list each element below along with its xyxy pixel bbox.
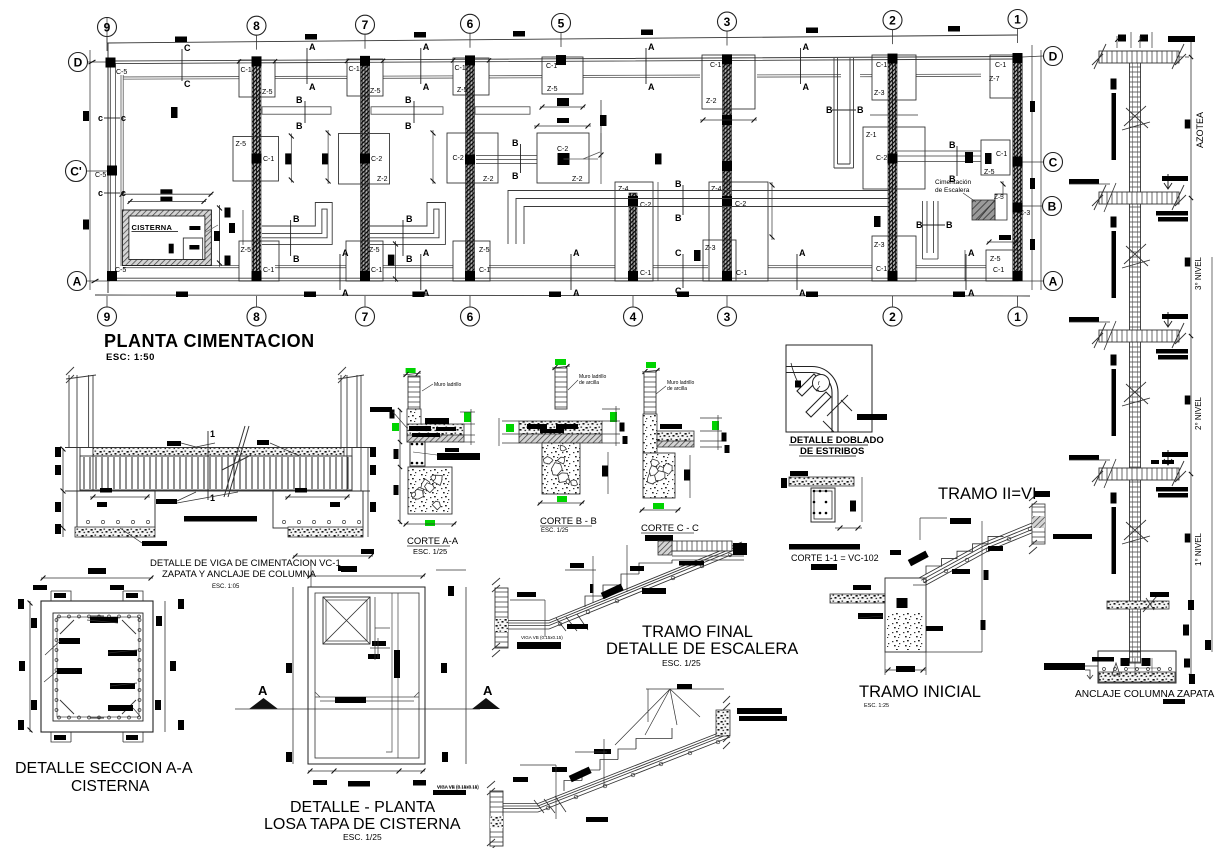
svg-text:A: A: [803, 42, 810, 52]
losa x-box: [323, 597, 370, 644]
svg-text:DETALLE - PLANTA: DETALLE - PLANTA: [290, 799, 436, 816]
tramo final bars: [517, 592, 536, 597]
left wall grid 9: [107, 43, 109, 293]
svg-text:Z-5: Z-5: [370, 88, 381, 95]
marker A pair top: [420, 48, 422, 84]
grid bubble 8 top: [247, 16, 266, 35]
svg-text:9: 9: [104, 310, 111, 324]
corte B-B left ticks: [502, 420, 519, 422]
marker C pair left wall upper: [104, 117, 120, 119]
corte A-A green right: [464, 412, 471, 422]
corte A-A leader to wall: [393, 412, 407, 428]
footing Z-1 grid 2 mid: [863, 127, 925, 189]
beam body with stirrup ticks: [80, 456, 352, 490]
tramo final landing hatch block: [658, 541, 672, 555]
svg-text:C-1: C-1: [263, 267, 274, 274]
tramo inicial top dim: [920, 517, 947, 519]
row bubble A right: [1044, 272, 1063, 291]
footing Z-3 grid 2 top: [872, 55, 916, 100]
svg-text:Z-2: Z-2: [706, 98, 717, 105]
marker B pair row B grid 2-1: [956, 146, 958, 176]
tramo final dims: [544, 600, 546, 637]
tramo final ramp: [549, 542, 742, 629]
svg-text:A: A: [309, 82, 316, 92]
svg-text:ZAPATA Y ANCLAJE DE COLUMNA: ZAPATA Y ANCLAJE DE COLUMNA: [162, 569, 316, 580]
dim vertical bay 7-6: [432, 130, 434, 184]
beam top speckled strip: [93, 448, 344, 457]
corte A-A footing: [408, 467, 452, 514]
svg-text:CORTE 1-1 = VC-102: CORTE 1-1 = VC-102: [791, 553, 879, 563]
dim vertical bay 4-3: [657, 182, 659, 281]
row bubble D right: [1044, 47, 1063, 66]
grid bubble 2 top: [883, 11, 902, 30]
corte B-B green bottom: [557, 496, 567, 502]
footing Z-7 grid 1 top: [990, 55, 1018, 98]
lower stair ramp: [538, 729, 730, 813]
corte C-C right ticks: [700, 417, 722, 419]
grid bubble 6 bottom: [461, 307, 480, 326]
dim marks around grid 2 top: [870, 114, 918, 116]
grid bubble 9 top: [98, 18, 117, 37]
left footing below beam: [77, 491, 155, 528]
svg-text:Z-5: Z-5: [994, 194, 1004, 201]
corte A-A bottom dim: [404, 523, 456, 525]
tramo inicial bar right of footing: [926, 626, 943, 631]
tramo inicial steps: [926, 536, 1004, 574]
VC-1 right dim: [367, 448, 369, 537]
cisterna sec outer rect: [41, 601, 153, 732]
svg-text:VIGA VB (0.15x0.15): VIGA VB (0.15x0.15): [437, 785, 479, 790]
beam lines right of grid 6: [475, 107, 530, 114]
svg-text:D: D: [74, 55, 83, 69]
footing Z-5 grid 8 top: [239, 60, 275, 97]
svg-text:ESC. 1/25: ESC. 1/25: [413, 547, 447, 556]
svg-text:C: C: [184, 79, 191, 89]
svg-text:C-2: C-2: [371, 156, 382, 163]
beam triple lines grid6 to standalone footing: [476, 156, 537, 164]
svg-text:A: A: [648, 42, 655, 52]
corte A-A black bar in band: [425, 418, 449, 424]
dim vertical right of Z-2 grid6: [600, 133, 602, 184]
losa bars: [341, 566, 357, 572]
svg-text:C: C: [675, 248, 682, 258]
tramo final steps: [585, 560, 672, 607]
lower stair base lines: [503, 804, 538, 813]
row bubble C' left: [66, 161, 87, 182]
cimentacion de escalera hatched block: [972, 200, 995, 220]
estribos hook leg 1: [797, 374, 819, 396]
top ticks and bars: [1168, 36, 1195, 42]
tramo inicial ramp: [885, 523, 1039, 585]
svg-text:C-1: C-1: [993, 267, 1004, 274]
footing Z-5 grid 5 top: [542, 57, 583, 94]
plan bottom dimension line: [95, 295, 1030, 296]
marker A pair bottom: [339, 254, 341, 290]
svg-text:C-1: C-1: [996, 151, 1007, 158]
svg-text:B: B: [916, 220, 923, 230]
svg-text:A: A: [342, 288, 349, 298]
svg-text:C-1: C-1: [455, 65, 466, 72]
tramo final ramp circles: [558, 553, 732, 626]
lower stair left wall: [490, 791, 503, 846]
plan right dimension line: [1031, 45, 1033, 290]
svg-text:DETALLE SECCION A-A: DETALLE SECCION A-A: [15, 760, 193, 777]
marker B pair row B bay 4-3: [682, 185, 684, 215]
corte C-C bottom dim: [640, 509, 680, 511]
svg-text:VIGA VB (0.15x0.15): VIGA VB (0.15x0.15): [521, 635, 563, 640]
row A inner wall segments: [123, 265, 239, 267]
VC-1 footing dim right: [285, 496, 350, 498]
VC-1 leader lines: [196, 443, 215, 447]
svg-text:B: B: [296, 121, 303, 131]
svg-text:C-2: C-2: [453, 155, 464, 162]
corte B-B right dim: [607, 452, 609, 494]
marker B pair row C bay 6-5: [520, 144, 522, 173]
footing Z-5 grid 7 bottom: [346, 241, 383, 281]
footing Z-2 standalone mid: [537, 133, 589, 183]
svg-text:8: 8: [253, 19, 260, 33]
svg-text:B: B: [293, 214, 300, 224]
corte A-A right ticks: [460, 411, 475, 413]
corte A-A long bars: [437, 453, 480, 460]
stair shaft U-shape: [834, 58, 854, 168]
right dim squares: [1185, 120, 1191, 129]
cisterna outer wall: [122, 210, 211, 266]
dim text bars left: [83, 111, 89, 121]
VC-1 footing dim left: [90, 496, 150, 498]
svg-text:AZOTEA: AZOTEA: [1195, 112, 1205, 148]
beam lines right of grid 7: [371, 107, 443, 114]
dim above standalone footing: [534, 125, 591, 127]
dim structure left of grid8 bottom: [242, 210, 244, 245]
svg-text:B: B: [512, 171, 519, 181]
dim line right of standalone footing: [600, 100, 602, 158]
svg-text:Z-3: Z-3: [874, 90, 885, 97]
right footing below beam: [273, 491, 363, 528]
svg-text:A: A: [1049, 274, 1058, 288]
svg-text:c: c: [121, 113, 126, 123]
svg-text:C-2: C-2: [640, 202, 651, 209]
svg-text:Z-4: Z-4: [711, 186, 722, 193]
svg-text:B: B: [1048, 199, 1057, 213]
corte 1-1 bottom bar: [789, 544, 860, 550]
grid bubble 2 bottom: [883, 307, 902, 326]
dim text bars top: [175, 37, 187, 43]
dim above Z-5 grid 1 bottom: [987, 241, 1020, 243]
footing Z-2 grid 6 mid: [447, 133, 498, 183]
escalera Z-5 box: [995, 194, 1007, 220]
svg-text:B: B: [293, 254, 300, 264]
svg-text:CORTE C - C: CORTE C - C: [641, 523, 699, 534]
cisterna sec top dim: [41, 577, 153, 579]
dim vertical right2: [327, 130, 329, 184]
svg-text:Z-5: Z-5: [241, 247, 252, 254]
row bubble B right: [1043, 197, 1062, 216]
dim tick marks row D: [237, 59, 241, 63]
lower stair truss dims: [615, 689, 700, 745]
column strip grid 8: [252, 60, 261, 281]
svg-text:C: C: [1049, 155, 1058, 169]
plan top dimension line: [107, 35, 1018, 43]
svg-text:C-1: C-1: [876, 62, 887, 69]
corte A-A green left: [392, 423, 399, 431]
grid bubble 7 bottom: [356, 307, 375, 326]
cisterna sec side dims: [29, 601, 31, 732]
row bubble C right: [1044, 153, 1063, 172]
lower stair transition diagonals: [534, 796, 566, 813]
svg-text:CORTE B - B: CORTE B - B: [540, 516, 597, 527]
svg-text:6: 6: [467, 17, 474, 31]
svg-text:de arcilla: de arcilla: [579, 380, 599, 386]
footing Z-5 grid 7 top: [347, 59, 383, 96]
column strip grid 6: [466, 60, 475, 281]
tramo final left wall: [495, 588, 508, 648]
svg-text:C-1: C-1: [736, 270, 747, 277]
column strip grid 7: [361, 60, 370, 281]
floor slab 3: [1099, 330, 1179, 342]
svg-text:ESC. 1/25: ESC. 1/25: [541, 528, 569, 534]
VC-1 annotation bars: [167, 441, 181, 446]
tramo inicial ground band: [830, 594, 885, 603]
marker A pair top: [645, 48, 647, 84]
marker A pair bottom: [796, 254, 798, 290]
grid bubble 3 bottom: [718, 307, 737, 326]
foundation beam L-run grids 6-4: [508, 191, 888, 245]
corte C-C muro: [644, 372, 656, 414]
losa inner vertical strip: [391, 593, 393, 742]
section marker 1-1: [207, 431, 209, 500]
corte B-B green left: [506, 424, 514, 432]
svg-text:B: B: [512, 138, 519, 148]
svg-text:Z-3: Z-3: [705, 245, 716, 252]
svg-text:C-5: C-5: [95, 172, 106, 179]
svg-text:A: A: [968, 248, 975, 258]
svg-text:C-1: C-1: [640, 270, 651, 277]
marker B pair grid 2 horizontal: [832, 109, 856, 111]
svg-text:C-1: C-1: [479, 267, 490, 274]
cisterna dim lines above: [121, 193, 213, 195]
svg-text:CISTERNA: CISTERNA: [71, 778, 150, 795]
beam lines right of grid 8: [262, 107, 331, 114]
tramo inicial dim vertical: [981, 521, 983, 652]
svg-text:1: 1: [1014, 12, 1021, 26]
svg-text:Z-2: Z-2: [377, 176, 388, 183]
svg-text:A: A: [799, 248, 806, 258]
svg-text:Z-2: Z-2: [483, 176, 494, 183]
svg-text:6: 6: [467, 310, 474, 324]
svg-text:Z-5: Z-5: [984, 169, 995, 176]
svg-text:Cimentación: Cimentación: [935, 179, 972, 186]
rebar bars vertical: [1111, 79, 1117, 90]
svg-text:Z-7: Z-7: [989, 76, 1000, 83]
svg-text:C-3: C-3: [1019, 210, 1030, 217]
svg-text:C-2: C-2: [557, 146, 568, 153]
svg-text:3: 3: [724, 310, 731, 324]
svg-text:B: B: [405, 95, 412, 105]
plan left dimension line: [89, 50, 91, 290]
corte 1-1 top slab: [789, 477, 854, 486]
svg-text:A: A: [648, 82, 655, 92]
column squares row A: [107, 271, 117, 281]
svg-text:C-1: C-1: [241, 67, 252, 74]
marker A pair bottom: [570, 254, 572, 290]
grid bubble 7 top: [356, 15, 375, 34]
svg-text:A: A: [573, 288, 580, 298]
dim vertical right of Z-5 mid: [290, 134, 292, 183]
tramo inicial bars right: [1053, 534, 1092, 539]
tramo inicial bottom dim: [885, 669, 926, 671]
svg-text:ESC. 1:25: ESC. 1:25: [864, 703, 889, 709]
footing Z-5 grid 1 row C: [981, 140, 1010, 175]
estribos diagonal ticks: [823, 395, 852, 432]
marker C pair top bay 9-8: [181, 49, 183, 81]
svg-text:C-2: C-2: [876, 155, 887, 162]
svg-text:Z-4: Z-4: [618, 186, 629, 193]
estribos right bar: [857, 414, 887, 420]
marker B pair right of grid 8: [304, 101, 306, 123]
svg-text:A: A: [258, 683, 268, 698]
marker A pair top: [306, 48, 308, 84]
svg-text:4: 4: [630, 310, 637, 324]
svg-text:B: B: [405, 121, 412, 131]
svg-text:A: A: [799, 288, 806, 298]
marker B pair bay 3-2 lower: [922, 224, 945, 226]
footing Z-4 grid 4: [615, 182, 653, 281]
right dim line: [1190, 40, 1192, 683]
column squares row D: [106, 58, 116, 68]
cisterna sec hook leaders: [44, 620, 140, 716]
right bars above and below slabs: [1162, 176, 1188, 181]
corte B-B bottom dim: [538, 502, 584, 504]
corte B-B green top: [555, 359, 566, 365]
footing box: [1098, 651, 1176, 683]
beam bottom line: [65, 490, 370, 492]
left ledges: [1069, 179, 1099, 184]
losa top dim: [308, 575, 425, 577]
svg-text:B: B: [675, 213, 682, 223]
grid bubble 1 top: [1008, 9, 1027, 28]
grid bubble 1 bottom: [1008, 307, 1027, 326]
svg-text:A: A: [968, 288, 975, 298]
corte B-B band bars: [527, 424, 547, 429]
floor slab 1: [1099, 51, 1179, 63]
svg-text:Muro ladrillo: Muro ladrillo: [434, 382, 461, 388]
grid bubble 9 bottom: [98, 307, 117, 326]
estribos box: [786, 345, 872, 432]
grid bubble 4 bottom: [624, 307, 643, 326]
tramo final landing slab: [672, 541, 732, 551]
svg-text:A: A: [309, 42, 316, 52]
svg-text:B: B: [946, 220, 953, 230]
grid bubble 8 bottom: [247, 307, 266, 326]
svg-text:2: 2: [889, 310, 896, 324]
svg-text:de Escalera: de Escalera: [935, 187, 970, 194]
marker B pair bay 8-7 lower: [290, 220, 292, 256]
cisterna sec inner line: [57, 617, 139, 717]
dim horiz below grid3 top footing: [700, 119, 757, 121]
svg-text:D: D: [1049, 49, 1058, 63]
estribos hook leg 2: [806, 392, 831, 417]
floor slab 2: [1099, 192, 1179, 204]
svg-text:A: A: [73, 274, 82, 288]
row D inner wall segments: [123, 76, 239, 78]
marker A pair top: [800, 48, 802, 84]
corte C-C right dim2: [689, 455, 691, 498]
losa side dims: [292, 587, 294, 764]
svg-text:ESC. 1:05: ESC. 1:05: [212, 584, 240, 590]
corte C-C green right: [712, 421, 719, 430]
tramo inicial top landing: [1032, 504, 1045, 544]
footing inner marks: [1121, 658, 1130, 666]
corte B-B footing: [542, 443, 580, 494]
tramo final base lines: [508, 621, 549, 630]
cisterna sec bottom hooks: [51, 732, 143, 742]
cisterna sec inner rect: [53, 613, 143, 721]
svg-text:PLANTA CIMENTACION: PLANTA CIMENTACION: [104, 331, 315, 351]
svg-text:Z-2: Z-2: [572, 176, 583, 183]
small marks above slab 4: [1151, 460, 1159, 464]
svg-text:A: A: [423, 42, 430, 52]
svg-text:C-1: C-1: [263, 156, 274, 163]
svg-text:TRAMO FINAL: TRAMO FINAL: [642, 623, 753, 641]
svg-text:7: 7: [362, 310, 369, 324]
marker C pair bottom bay 5-3: [682, 254, 684, 288]
estribos leader arrow: [791, 363, 800, 387]
svg-text:A: A: [342, 248, 349, 258]
svg-text:TRAMO INICIAL: TRAMO INICIAL: [859, 683, 981, 701]
tramo final vert bar: [590, 584, 594, 593]
lower stair dims2: [555, 765, 557, 819]
footing left annotation: [1044, 663, 1085, 670]
svg-text:c: c: [98, 188, 103, 198]
svg-text:A: A: [423, 82, 430, 92]
beam lines grid 1 row B: [923, 201, 939, 259]
svg-text:DE ESTRIBOS: DE ESTRIBOS: [800, 446, 864, 457]
footing Z-2 grid 7 mid: [339, 134, 390, 185]
marker C pair left wall lower: [104, 192, 120, 194]
svg-text:C-1: C-1: [349, 66, 360, 73]
svg-text:Z-5: Z-5: [369, 247, 380, 254]
corte 1-1 right dim: [861, 477, 863, 522]
dim text bars right: [1030, 101, 1035, 112]
svg-text:Z-5: Z-5: [457, 87, 468, 94]
svg-text:B: B: [296, 95, 303, 105]
row bubble D left: [69, 53, 88, 72]
right outer dim: [1211, 257, 1213, 652]
losa dim structures right of xbox: [374, 597, 376, 660]
corte B-B cimiento band: [519, 421, 602, 434]
svg-text:Z-3: Z-3: [874, 242, 885, 249]
right dim squares bottom: [1188, 600, 1194, 610]
corte A-A muro ladrillo: [408, 376, 420, 409]
losa upper dim structure: [293, 555, 373, 557]
svg-text:A: A: [803, 82, 810, 92]
cisterna sec top hooks: [51, 591, 143, 601]
svg-text:Z-5: Z-5: [547, 86, 558, 93]
svg-text:1° NIVEL: 1° NIVEL: [1194, 532, 1203, 566]
svg-text:B: B: [406, 254, 413, 264]
svg-text:1: 1: [210, 429, 215, 439]
svg-text:3° NIVEL: 3° NIVEL: [1194, 256, 1203, 290]
svg-text:3: 3: [724, 15, 731, 29]
losa inner rect: [315, 593, 419, 758]
svg-text:8: 8: [253, 310, 260, 324]
corte C-C green bottom: [653, 503, 664, 509]
svg-text:A: A: [483, 683, 493, 698]
dashed level line top: [1179, 56, 1192, 58]
svg-text:9: 9: [104, 20, 111, 34]
svg-text:C: C: [184, 43, 191, 53]
